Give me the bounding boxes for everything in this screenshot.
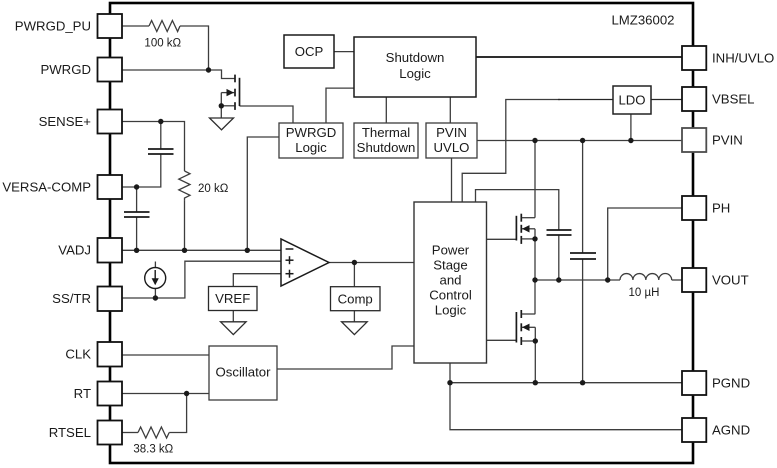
inductor L1 (620, 274, 672, 280)
svg-text:38.3 kΩ: 38.3 kΩ (133, 444, 173, 456)
wire PH pin to switch rail (608, 208, 682, 280)
wire PWRGD Logic to VADJ node (247, 137, 279, 250)
resistor R1 100k zigzag (149, 21, 180, 32)
block Shutdown Logic U1 (354, 37, 476, 97)
svg-text:Stage: Stage (433, 258, 467, 273)
svg-text:INH/UVLO: INH/UVLO (712, 51, 774, 66)
wire LS gate lead (487, 339, 516, 341)
node switch rail junction 3 (605, 277, 610, 282)
pin SS/TR (98, 287, 123, 312)
svg-text:VBSEL: VBSEL (712, 92, 755, 107)
wire R2 to VADJ line (184, 201, 186, 251)
node switch rail junction 1 (532, 277, 537, 282)
node PGND rail junction 3 (580, 380, 585, 385)
wire CLK to oscillator (122, 354, 209, 356)
wire LDO to VBSEL pin (651, 99, 682, 101)
node amp output junction (352, 260, 357, 265)
block Oscillator (209, 346, 277, 400)
wire input cap bottom lead (582, 259, 584, 383)
transistor Q1 PWRGD pulldown (235, 75, 240, 110)
node SS/TR junction (153, 295, 158, 300)
wire PWRGD_PU to resistor R1 (122, 25, 149, 27)
wire switch node (534, 239, 536, 314)
svg-text:OCP: OCP (295, 44, 324, 59)
wire R3 to RT line (169, 394, 186, 433)
svg-text:20 kΩ: 20 kΩ (198, 183, 229, 195)
svg-text:Oscillator: Oscillator (216, 365, 272, 380)
wire SS/TR to amp plus input (122, 261, 281, 298)
svg-text:LMZ36002: LMZ36002 (611, 13, 674, 28)
svg-text:PVIN: PVIN (436, 125, 467, 140)
capacitor C2 branch from VERSA-COMP (136, 187, 138, 212)
node PVIN rail junction 3 (628, 138, 633, 143)
pin VBSEL (682, 87, 706, 111)
wire R1 to PWRGD node (180, 26, 209, 70)
pin RT (98, 382, 123, 406)
block PWRGD Logic (279, 123, 343, 158)
op-amp error amplifier (281, 239, 329, 286)
node switch rail junction 2 (556, 277, 561, 282)
wire oscillator output to power stage (277, 346, 414, 369)
outer IC boundary box (110, 3, 693, 463)
capacitor C1 (SENSE+ to VERSA-COMP) (148, 149, 174, 154)
svg-text:VERSA-COMP: VERSA-COMP (2, 180, 91, 195)
svg-text:SENSE+: SENSE+ (39, 114, 92, 129)
wire PGND rail (450, 382, 682, 384)
wire power stage to PGND rail and AGND (450, 363, 682, 430)
pin AGND (682, 418, 706, 442)
svg-text:CLK: CLK (65, 347, 91, 362)
svg-text:PGND: PGND (712, 376, 750, 391)
svg-text:RT: RT (74, 386, 91, 401)
svg-text:PWRGD: PWRGD (40, 62, 91, 77)
wire Shutdown Logic to PVIN UVLO (449, 97, 451, 123)
pin VERSA-COMP (98, 175, 123, 199)
pin PWRGD (98, 58, 123, 82)
wire Shutdown Logic to Thermal Shutdown (385, 97, 387, 123)
svg-text:Shutdown: Shutdown (357, 140, 416, 155)
wire OCP to Shutdown Logic (334, 51, 354, 53)
svg-text:Control: Control (429, 288, 472, 303)
svg-text:Thermal: Thermal (362, 125, 410, 140)
amp plus sign 1 (286, 256, 294, 264)
pin PWRGD_PU (98, 14, 123, 38)
wire Q1 source to ground (220, 93, 222, 118)
current source I1 stub (154, 288, 156, 298)
wire HS drain to PVIN rail (534, 141, 536, 218)
wire LDO left output segment (558, 99, 613, 101)
block LDO (613, 86, 651, 114)
ground below Q1 (210, 118, 234, 130)
capacitor C3 bootstrap (547, 230, 572, 235)
node PVIN rail junction 2 (580, 138, 585, 143)
svg-text:SS/TR: SS/TR (52, 291, 91, 306)
wire comp branch (353, 263, 355, 287)
pin VOUT (682, 268, 706, 292)
pin PVIN (682, 128, 706, 152)
svg-text:PVIN: PVIN (712, 133, 743, 148)
svg-text:Comp: Comp (338, 291, 373, 306)
wire inductor to VOUT pin (672, 279, 682, 281)
node VADJ junction 1 (134, 248, 139, 253)
wire PWRGD pin to node A (122, 69, 209, 71)
svg-text:Logic: Logic (295, 140, 327, 155)
svg-text:VOUT: VOUT (712, 273, 749, 288)
ground below Comp (342, 322, 368, 335)
wire PVIN UVLO to power stage (451, 158, 453, 202)
transistor Q3 low side (516, 310, 521, 345)
wire node A to Q1 drain (209, 70, 235, 79)
wire HS gate lead (487, 238, 516, 240)
node PVIN rail junction 1 (532, 138, 537, 143)
wire LDO output to power stage (462, 100, 560, 203)
block OCP (284, 35, 334, 68)
capacitor C4 input cap (570, 253, 596, 259)
block Thermal Shutdown (354, 123, 418, 158)
resistor R3 38.3k zigzag (138, 427, 169, 438)
wire LDO to PVIN rail stub (630, 110, 632, 141)
node PGND rail junction 2 (533, 380, 538, 385)
pin CLK (98, 342, 123, 367)
svg-text:AGND: AGND (712, 423, 750, 438)
pin SENSE+ (98, 110, 123, 134)
svg-text:PWRGD: PWRGD (286, 125, 337, 140)
block Power Stage and Control Logic (414, 202, 487, 363)
wire Q1 gate to PWRGD Logic (240, 106, 294, 123)
svg-text:and: and (439, 273, 461, 288)
block VREF (209, 287, 258, 311)
node RT junction (184, 391, 189, 396)
node VADJ junction 2 (182, 248, 187, 253)
wire RTSEL to resistor R3 (122, 432, 138, 434)
svg-text:Shutdown: Shutdown (386, 50, 445, 65)
wire SENSE+ to 20k resistor (122, 122, 185, 172)
svg-text:PWRGD_PU: PWRGD_PU (15, 19, 91, 34)
pin RTSEL (98, 421, 123, 445)
svg-text:Logic: Logic (399, 66, 431, 81)
transistor Q2 high side (516, 214, 521, 244)
svg-text:Power: Power (432, 243, 470, 258)
node SENSE+ cap junction (158, 119, 163, 124)
svg-text:RTSEL: RTSEL (49, 425, 91, 440)
svg-text:VADJ: VADJ (58, 243, 91, 258)
ground below VREF (221, 322, 247, 335)
svg-text:100 kΩ: 100 kΩ (144, 38, 181, 50)
node PGND rail junction 1 (447, 380, 452, 385)
block Comp (331, 287, 381, 311)
wire Shutdown Logic to INH/UVLO pin (476, 56, 682, 58)
svg-text:10 µH: 10 µH (629, 287, 660, 299)
wire VREF to ground (232, 311, 234, 322)
wire bootstrap jog (476, 190, 559, 230)
svg-text:VREF: VREF (215, 291, 250, 306)
wire input cap top lead (582, 141, 584, 254)
pin INH/UVLO (682, 46, 706, 70)
node A PWRGD junction (206, 67, 211, 72)
pin PGND (682, 371, 706, 395)
capacitor C2 lower lead (136, 217, 138, 250)
current source I1 top stub (154, 262, 156, 268)
wire PVIN rail (477, 140, 682, 142)
wire SENSE+ cap branch (160, 122, 162, 150)
node Q1 source junction (219, 103, 224, 108)
wire LS source to PGND rail (534, 341, 536, 383)
node VERSA-COMP junction (134, 184, 139, 189)
wire amp output to power stage (329, 262, 414, 264)
capacitor C1 lower lead (122, 154, 161, 187)
wire RT to oscillator (122, 393, 209, 395)
capacitor C2 (VERSA-COMP to VADJ) (124, 212, 150, 217)
svg-text:PH: PH (712, 201, 730, 216)
amp plus sign 2 (286, 270, 294, 278)
svg-text:Logic: Logic (435, 303, 467, 318)
amp minus sign (286, 248, 294, 250)
svg-text:LDO: LDO (618, 93, 645, 108)
current source I1 (145, 268, 166, 289)
node LS source junction (533, 338, 538, 343)
wire VREF to amp second plus input (233, 274, 281, 287)
pin VADJ (98, 238, 123, 263)
block PVIN UVLO (426, 123, 477, 158)
node VADJ junction 3 (245, 248, 250, 253)
resistor R2 20k zigzag (179, 171, 190, 201)
pin PH (682, 196, 706, 220)
node HS source junction (532, 236, 537, 241)
svg-text:UVLO: UVLO (434, 140, 470, 155)
wire VADJ to error amp (122, 249, 281, 251)
wire bootstrap cap to switch rail (558, 235, 560, 280)
wire VOUT rail to inductor (535, 279, 620, 281)
wire PWRGD Logic to Shutdown Logic (326, 88, 354, 123)
wire Comp to ground (353, 310, 355, 322)
